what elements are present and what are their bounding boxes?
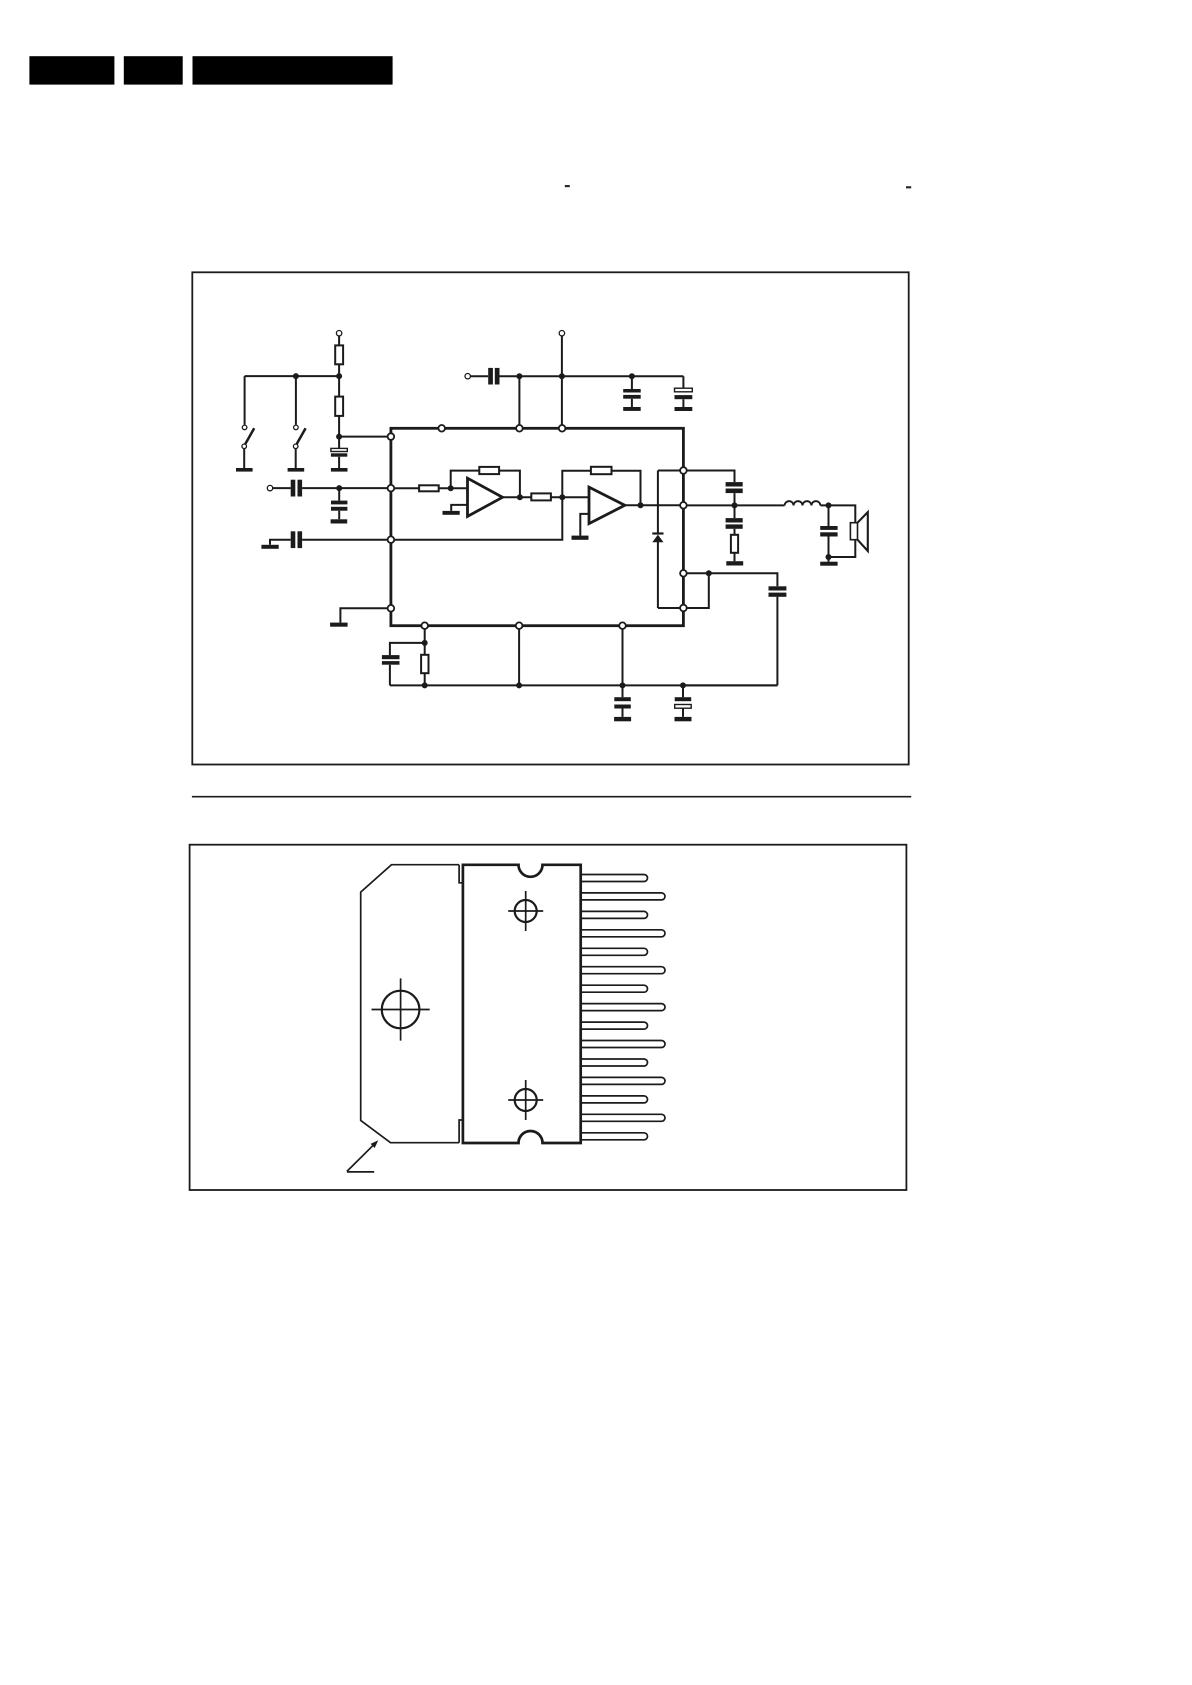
redaction bar 3 bbox=[193, 56, 393, 84]
pin 9 bbox=[580, 1022, 648, 1029]
ground bbox=[820, 562, 837, 566]
mounting hole crosshair (tab) bbox=[372, 978, 430, 1040]
capacitor C7 bbox=[623, 376, 641, 407]
figure border: application circuit box bbox=[192, 272, 908, 764]
terminal IN bbox=[267, 485, 272, 490]
wire bbox=[829, 540, 856, 562]
switch SW2 bbox=[293, 376, 305, 468]
chamfer reference arrow bbox=[347, 1140, 378, 1172]
wire bbox=[518, 376, 520, 428]
pin 10 bbox=[680, 570, 687, 577]
pin 15 bbox=[580, 1133, 648, 1140]
package body with notches bbox=[463, 865, 581, 1143]
node junction bbox=[680, 682, 686, 688]
ground (input 2) bbox=[261, 545, 278, 549]
wire output bbox=[503, 496, 532, 498]
node junction bbox=[336, 434, 342, 440]
pin 8 bbox=[680, 467, 687, 474]
wire supply rail bbox=[500, 375, 684, 377]
pin 9 bbox=[680, 502, 687, 509]
wire bbox=[561, 336, 563, 428]
wire bbox=[338, 364, 340, 396]
ground bbox=[726, 561, 743, 565]
node junction bbox=[448, 485, 454, 491]
resistor R3 bbox=[391, 485, 468, 491]
terminal ST-BY top bbox=[336, 331, 341, 336]
op-amp U1B bbox=[589, 487, 625, 523]
capacitor C12 (across speaker) bbox=[820, 505, 837, 557]
node junction bbox=[293, 373, 299, 379]
pin 5 bbox=[438, 425, 445, 432]
capacitor C1 (polarized) bbox=[331, 437, 347, 468]
node junction bbox=[559, 494, 565, 500]
wire output bbox=[625, 504, 684, 506]
node junction bbox=[516, 373, 522, 379]
node junction bbox=[629, 373, 635, 379]
pin 4 bbox=[580, 930, 665, 937]
wire inverting input to ground bbox=[451, 505, 467, 511]
pin 6 bbox=[580, 967, 665, 974]
pin 14 bbox=[580, 1114, 665, 1121]
capacitor C2 bbox=[291, 480, 302, 497]
resistor R5 bbox=[531, 493, 589, 500]
resistor R7 (zobel) bbox=[731, 535, 738, 561]
wire bbox=[270, 540, 291, 545]
node junction bbox=[422, 682, 428, 688]
IC U1 (power amplifier block) bbox=[391, 428, 684, 625]
index hole crosshair bottom bbox=[508, 1080, 543, 1120]
separator rule bbox=[192, 796, 911, 798]
dash mark right bbox=[906, 186, 911, 188]
ground bbox=[675, 407, 693, 411]
pin 11 bbox=[580, 1059, 648, 1066]
wire rail to switches bbox=[245, 375, 340, 377]
node junction bbox=[516, 682, 522, 688]
wire bbox=[302, 487, 391, 489]
pin 12 bbox=[580, 1077, 665, 1084]
wire inverting input to ground bbox=[580, 514, 589, 536]
terminal VS top bbox=[559, 331, 564, 336]
node junction bbox=[517, 494, 523, 500]
package pins 1-15 bbox=[580, 875, 665, 1140]
ground bbox=[623, 407, 641, 411]
pin 13 bbox=[580, 1096, 648, 1103]
ground bbox=[331, 468, 348, 472]
ground bbox=[330, 623, 348, 627]
capacitor C6 (polarized) bbox=[675, 376, 693, 407]
resistor R2 bbox=[335, 397, 343, 416]
pin 13 bbox=[516, 622, 523, 629]
ground bbox=[331, 519, 348, 523]
node junction bbox=[826, 554, 832, 560]
pin 7 bbox=[580, 985, 648, 992]
ground bbox=[572, 536, 589, 540]
pin 10 bbox=[580, 1041, 665, 1048]
node junction bbox=[826, 502, 832, 508]
node junction bbox=[706, 570, 712, 576]
capacitor C15 (polarized) bbox=[675, 685, 692, 717]
pin circles bbox=[388, 425, 687, 629]
feedback resistor R6 bbox=[562, 467, 640, 506]
wire bbox=[518, 626, 520, 686]
wire bbox=[339, 416, 391, 437]
figure border: package drawing box bbox=[190, 845, 907, 1190]
node junction bbox=[638, 502, 644, 508]
resistor R1 bbox=[335, 345, 343, 364]
capacitor C4 bbox=[291, 531, 302, 548]
index hole crosshair top bbox=[508, 891, 543, 931]
wire bottom rail bbox=[390, 684, 778, 686]
pin 5 bbox=[580, 948, 648, 955]
inductor L1 bbox=[785, 501, 821, 505]
dash mark left bbox=[565, 185, 570, 187]
capacitor C10 (pin to output) bbox=[683, 471, 742, 506]
redaction bar 2 bbox=[124, 56, 183, 84]
pin 14 bbox=[619, 622, 626, 629]
heatsink tab outline bbox=[361, 865, 463, 1143]
wire bbox=[273, 487, 291, 489]
op-amp U1A bbox=[468, 478, 503, 516]
node junction bbox=[559, 373, 565, 379]
ground bbox=[443, 511, 460, 515]
wire pin4 to ground bbox=[340, 608, 391, 622]
wire output line bbox=[683, 504, 784, 506]
node junction bbox=[336, 373, 342, 379]
capacitor C13 bbox=[382, 643, 425, 686]
switch SW1 bbox=[242, 376, 254, 468]
capacitor C3 bbox=[331, 488, 347, 519]
wire bbox=[622, 626, 624, 698]
pin 2 bbox=[580, 893, 665, 900]
ground bbox=[675, 717, 692, 721]
pin 1 bbox=[580, 875, 648, 882]
pin 4 bbox=[388, 605, 395, 612]
pin 2 bbox=[388, 485, 395, 492]
capacitor C11 (zobel) bbox=[726, 505, 743, 534]
wire bbox=[820, 505, 855, 522]
wire SVR pin bbox=[424, 626, 426, 686]
wire bbox=[302, 539, 391, 541]
pin 8 bbox=[580, 1004, 665, 1011]
pin 1 bbox=[388, 433, 395, 440]
pin 3 bbox=[580, 911, 648, 918]
wire pin3 line bbox=[391, 497, 562, 539]
resistor R8 bbox=[421, 655, 428, 673]
node junction bbox=[422, 640, 428, 646]
wire bbox=[470, 375, 488, 377]
node junction bbox=[732, 502, 738, 508]
ground bbox=[614, 717, 631, 721]
pin 11 bbox=[680, 605, 687, 612]
wire bootstrap bbox=[658, 573, 709, 608]
pin 3 bbox=[388, 536, 395, 543]
pin 6 bbox=[516, 425, 523, 432]
feedback resistor R4 bbox=[451, 467, 520, 497]
node junction bbox=[620, 682, 626, 688]
capacitor C14 bbox=[614, 697, 631, 717]
capacitor C8 (bootstrap) bbox=[683, 573, 786, 685]
pin 7 bbox=[559, 425, 566, 432]
terminal supply rail left bbox=[465, 374, 470, 379]
ground bbox=[236, 468, 253, 472]
pin 12 bbox=[421, 622, 428, 629]
speaker LS1 bbox=[850, 512, 867, 551]
wire bbox=[338, 336, 340, 346]
redaction bar 1 bbox=[29, 56, 114, 84]
diode D1 bbox=[652, 471, 683, 609]
node junction bbox=[336, 485, 342, 491]
ground bbox=[288, 468, 305, 472]
capacitor C5 bbox=[488, 368, 499, 385]
